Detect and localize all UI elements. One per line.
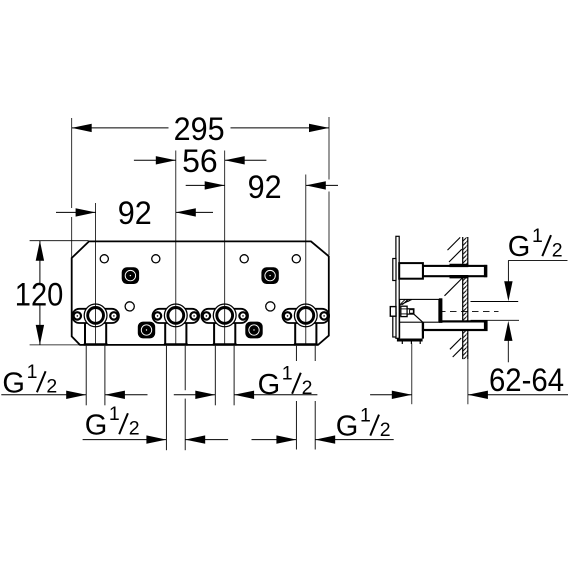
dim 295 xyxy=(72,127,169,129)
centerline fitting 3 xyxy=(224,151,226,345)
label G 1/2 fitting 2 xyxy=(85,403,140,441)
reference lines xyxy=(471,301,519,303)
union fitting 2 xyxy=(153,304,200,344)
G1/2 dim row 2 xyxy=(83,439,167,441)
svg-text:62-64: 62-64 xyxy=(489,362,564,398)
plate hole mid left xyxy=(125,302,134,311)
rail clips xyxy=(393,259,396,281)
plate hole top 1 xyxy=(100,255,108,263)
centerline fitting 2 xyxy=(175,151,177,345)
screw tip xyxy=(407,309,414,314)
nut xyxy=(401,306,407,316)
centerline fitting 1 xyxy=(95,203,97,345)
bracket xyxy=(399,322,401,338)
svg-text:120: 120 xyxy=(15,276,64,312)
middle outlet body xyxy=(400,299,439,322)
svg-text:295: 295 xyxy=(174,111,225,147)
lower supply pipe xyxy=(423,321,487,330)
mounting screw lower right xyxy=(245,322,262,339)
upper fitting block xyxy=(399,263,423,279)
mounting screw upper left xyxy=(122,267,139,284)
tail pipes below plate xyxy=(85,346,87,406)
G 1/2 leader top right xyxy=(508,225,563,263)
plate hole top 3 xyxy=(240,255,248,263)
union fitting 3 xyxy=(201,304,248,344)
plate hole top 4 xyxy=(292,255,300,263)
svg-text:92: 92 xyxy=(248,169,282,205)
centerline fitting 4 xyxy=(305,175,307,345)
dim 62-64 xyxy=(411,344,413,405)
union fitting 4 xyxy=(283,304,330,344)
outlet flange xyxy=(439,298,443,323)
label G 1/2 fitting 3 xyxy=(258,363,313,401)
extension line right (plate right edge, dim 295) xyxy=(328,117,330,180)
plate hole mid right xyxy=(266,302,275,311)
sparse wall hatching xyxy=(448,237,461,250)
plate edge-on xyxy=(396,236,399,338)
dashed centerline xyxy=(439,310,499,312)
plate hole top 2 xyxy=(152,255,160,263)
extension line bottom (dim 120) xyxy=(30,344,81,346)
union fitting 1 xyxy=(72,304,119,344)
chamfer to pipe xyxy=(414,314,423,322)
extension line left (plate left edge, dim 295) xyxy=(71,118,73,208)
wall sleeve around upper pipe xyxy=(450,264,469,267)
dim 92 upper xyxy=(186,184,225,186)
mounting screw lower left xyxy=(138,322,155,339)
screw head left xyxy=(390,307,396,317)
upper supply pipe xyxy=(423,266,486,276)
mounting screw upper right xyxy=(261,267,278,284)
label G 1/2 fitting 1 xyxy=(2,361,57,399)
svg-text:56: 56 xyxy=(182,143,218,179)
wall xyxy=(462,237,464,359)
dim 120 xyxy=(39,241,41,284)
mounting plate outline xyxy=(72,241,329,345)
dim 56 xyxy=(134,159,176,161)
dim 92 lower xyxy=(56,211,96,213)
G1/2 dim row 1 xyxy=(1,394,86,396)
extension line top (dim 120) xyxy=(30,240,89,242)
label G 1/2 fitting 4 xyxy=(336,405,391,443)
svg-text:92: 92 xyxy=(118,195,152,231)
gusset hatch xyxy=(400,300,412,306)
